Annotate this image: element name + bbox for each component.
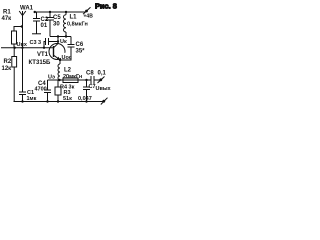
resistor R4 <box>63 78 78 83</box>
svg-text:+4В: +4В <box>84 14 94 20</box>
wire C5 lower lead <box>49 20 51 37</box>
node C7 top <box>85 79 87 81</box>
capacitor C7 <box>83 87 90 90</box>
node C1 top <box>21 47 23 49</box>
resistor R2 upper lead <box>13 48 15 57</box>
svg-text:C6: C6 <box>76 42 84 48</box>
svg-text:4700: 4700 <box>35 87 47 93</box>
inductor L2 <box>58 64 60 80</box>
node C3/collector junction <box>57 40 59 42</box>
svg-text:L1: L1 <box>70 15 78 21</box>
wire C4 lower lead <box>47 93 49 102</box>
svg-text:30: 30 <box>53 22 60 28</box>
wire C3 right lead <box>49 41 59 43</box>
node C5 top <box>49 11 51 13</box>
svg-text:0,1: 0,1 <box>98 71 107 77</box>
node R2 top <box>14 47 16 49</box>
node L1 top <box>65 11 67 13</box>
node collector top <box>57 35 59 37</box>
node C1 bottom <box>21 100 23 102</box>
node antenna/R1 corner <box>21 25 23 27</box>
capacitor C1 <box>19 92 26 95</box>
wire antenna stem <box>22 16 24 48</box>
capacitor C1 upper lead <box>22 48 24 92</box>
svg-text:C5: C5 <box>53 15 61 21</box>
wire top rail <box>34 11 86 13</box>
wire emitter rail <box>48 79 92 81</box>
svg-text:01: 01 <box>41 23 48 29</box>
node emitter/C6 <box>59 59 61 61</box>
wire C2 lower lead <box>36 21 38 34</box>
capacitor C4 <box>44 90 51 93</box>
svg-text:0,8мкГн: 0,8мкГн <box>67 22 88 28</box>
node L2 bottom <box>58 79 60 81</box>
node R3 bottom <box>57 100 59 102</box>
wire C8 output <box>94 79 100 81</box>
capacitor C5 <box>46 18 54 21</box>
wire bottom rail <box>14 101 104 103</box>
svg-text:Uос: Uос <box>62 55 72 61</box>
wire base <box>1 47 54 49</box>
terminal +4В <box>85 10 88 13</box>
capacitor C4 upper lead <box>47 80 49 90</box>
resistor R1 <box>12 31 17 44</box>
svg-text:L2: L2 <box>64 68 72 74</box>
svg-text:Uвх: Uвх <box>17 42 28 48</box>
wire emitter <box>59 60 61 64</box>
svg-text:1мк: 1мк <box>27 96 37 102</box>
capacitor C2 <box>33 19 40 22</box>
wire C1 lower lead <box>22 95 24 102</box>
svg-text:20мкГн: 20мкГн <box>63 74 82 80</box>
wire C7 lower lead <box>86 90 88 102</box>
ground <box>32 33 41 35</box>
svg-text:КТ315Б: КТ315Б <box>29 60 51 66</box>
antenna WA1 <box>19 11 26 16</box>
node C7 bottom <box>85 100 87 102</box>
wire C6 lower lead <box>60 47 71 60</box>
transistor VT1 <box>49 44 65 60</box>
node Uэс label <box>61 53 71 60</box>
resistor R2 <box>12 57 17 68</box>
svg-text:35*: 35* <box>76 49 86 55</box>
svg-text:Uвых: Uвых <box>96 86 112 92</box>
wire C3 left lead <box>44 42 46 49</box>
svg-text:C7: C7 <box>89 84 96 90</box>
wire C2 upper lead <box>36 12 38 19</box>
svg-text:C8: C8 <box>86 71 94 77</box>
inductor L1 <box>64 12 67 32</box>
wire collector <box>57 37 59 44</box>
svg-text:VT1: VT1 <box>37 52 49 58</box>
resistor R3 <box>57 80 59 87</box>
capacitor C6 <box>68 45 75 48</box>
node L1 bottom <box>65 35 67 37</box>
svg-text:С3 3: С3 3 <box>30 40 42 46</box>
node C2 top <box>34 11 36 13</box>
terminal Uвых top <box>99 78 102 81</box>
wire R1 top jog <box>14 27 23 32</box>
wire R1 bottom lead <box>13 44 15 48</box>
svg-text:Рис. 8: Рис. 8 <box>95 1 117 10</box>
capacitor C6 upper lead <box>70 37 72 45</box>
capacitor C3 <box>46 38 49 45</box>
capacitor C7 lead <box>86 80 88 87</box>
svg-text:47к: 47к <box>2 16 12 22</box>
svg-text:R1: R1 <box>3 10 11 16</box>
capacitor C8 <box>91 76 94 84</box>
node C3 tap <box>43 47 45 49</box>
wire L1 bottom lead <box>65 32 67 37</box>
svg-text:WA1: WA1 <box>20 6 34 12</box>
terminal Uвых bottom <box>102 100 105 103</box>
svg-text:R2: R2 <box>4 59 12 65</box>
wire tank bottom <box>50 36 71 38</box>
wire C5 upper lead <box>49 12 51 18</box>
wire R2 lower lead <box>13 67 15 102</box>
node C4 bottom <box>46 100 48 102</box>
svg-text:12к: 12к <box>2 66 12 72</box>
